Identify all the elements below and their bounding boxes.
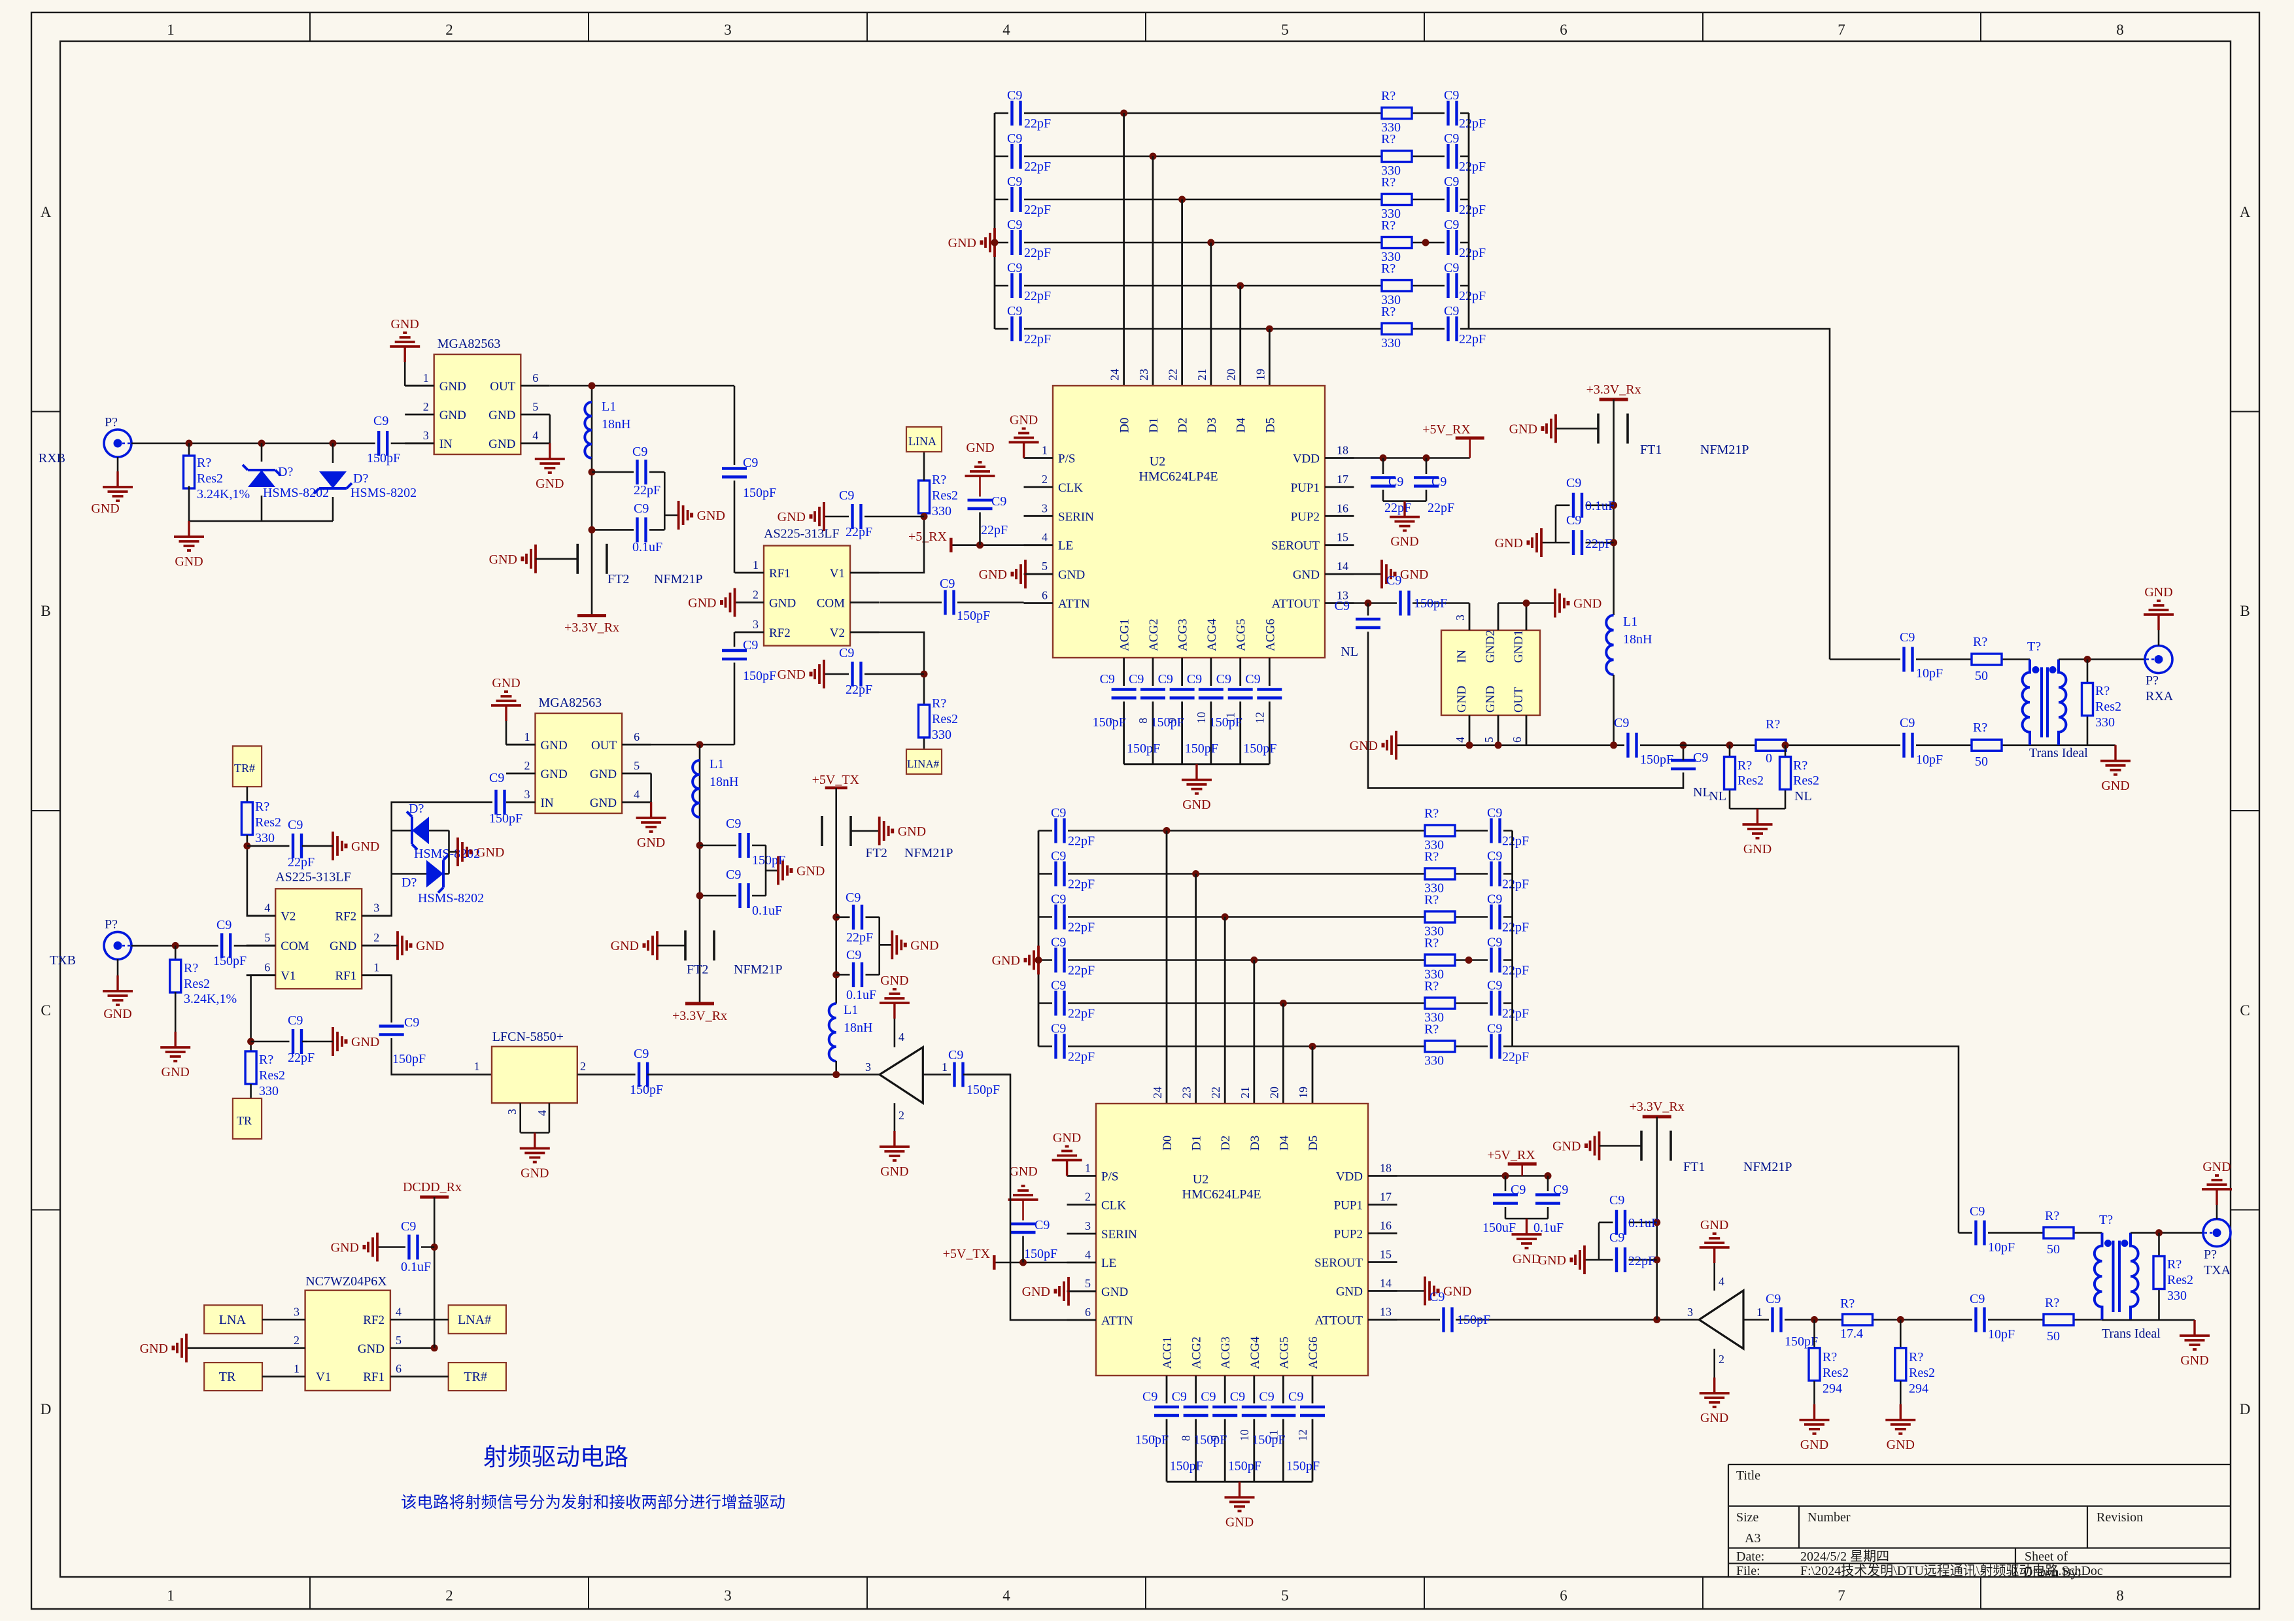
svg-text:10pF: 10pF (1916, 753, 1943, 767)
svg-text:C9: C9 (1444, 131, 1459, 146)
svg-text:150pF: 150pF (630, 1083, 663, 1097)
svg-text:A: A (41, 204, 52, 220)
svg-text:FT1: FT1 (1683, 1160, 1705, 1174)
svg-text:GND: GND (1293, 568, 1320, 582)
svg-text:R?: R? (255, 800, 269, 814)
svg-text:P?: P? (105, 415, 118, 430)
svg-text:GND: GND (140, 1342, 168, 1356)
svg-text:GND: GND (1887, 1438, 1915, 1452)
svg-text:18: 18 (1337, 444, 1348, 457)
svg-text:0.1uF: 0.1uF (1533, 1221, 1564, 1235)
svg-text:150pF: 150pF (489, 811, 522, 826)
svg-text:16: 16 (1380, 1219, 1392, 1232)
svg-text:330: 330 (2095, 715, 2115, 730)
svg-text:23: 23 (1137, 369, 1150, 381)
svg-text:HSMS-8202: HSMS-8202 (351, 486, 417, 500)
svg-text:ACG6: ACG6 (1263, 618, 1277, 651)
svg-text:R?: R? (1973, 720, 1987, 735)
svg-text:D?: D? (402, 875, 417, 890)
svg-text:NFM21P: NFM21P (734, 962, 782, 977)
svg-text:+3.3V_Rx: +3.3V_Rx (672, 1009, 727, 1023)
svg-text:ACG5: ACG5 (1235, 618, 1248, 651)
svg-text:NC7WZ04P6X: NC7WZ04P6X (305, 1274, 387, 1289)
svg-text:330: 330 (255, 831, 275, 845)
svg-text:OUT: OUT (591, 739, 617, 753)
svg-text:Res2: Res2 (2095, 700, 2121, 714)
svg-text:OUT: OUT (1512, 687, 1526, 713)
svg-text:GND: GND (948, 236, 976, 250)
svg-text:GND: GND (796, 864, 825, 879)
svg-text:C9: C9 (1051, 979, 1066, 993)
svg-text:R?: R? (1381, 262, 1395, 276)
svg-text:GND: GND (162, 1065, 190, 1079)
svg-text:C9: C9 (1487, 892, 1502, 907)
svg-text:TR#: TR# (464, 1370, 487, 1384)
svg-text:VDD: VDD (1293, 452, 1320, 466)
svg-text:FT1: FT1 (1640, 443, 1662, 457)
svg-text:Res2: Res2 (1909, 1366, 1935, 1380)
svg-text:24: 24 (1108, 369, 1121, 381)
svg-text:Res2: Res2 (197, 471, 223, 486)
svg-text:D1: D1 (1147, 418, 1161, 433)
svg-text:GND: GND (1552, 1140, 1581, 1154)
svg-text:GND: GND (1225, 1515, 1254, 1529)
svg-text:150pF: 150pF (1252, 1432, 1285, 1447)
svg-text:GND: GND (1495, 536, 1523, 550)
svg-text:GND: GND (590, 796, 617, 810)
svg-text:C9: C9 (1259, 1390, 1274, 1404)
svg-text:GND: GND (910, 938, 938, 953)
svg-text:50: 50 (1975, 669, 1988, 683)
svg-text:R?: R? (2167, 1257, 2182, 1272)
svg-text:4: 4 (1002, 22, 1010, 38)
svg-text:150pF: 150pF (957, 609, 990, 623)
svg-text:18nH: 18nH (602, 417, 630, 431)
svg-text:1: 1 (1042, 444, 1048, 457)
svg-text:GND: GND (492, 676, 520, 690)
svg-text:0.1uF: 0.1uF (1628, 1216, 1658, 1230)
svg-text:150pF: 150pF (367, 451, 400, 465)
svg-text:FT2: FT2 (866, 846, 887, 860)
svg-text:GND: GND (536, 477, 564, 491)
svg-text:CLK: CLK (1058, 481, 1083, 495)
svg-text:C9: C9 (1444, 175, 1459, 189)
svg-text:10pF: 10pF (1988, 1327, 2015, 1342)
svg-text:HMC624LP4E: HMC624LP4E (1138, 469, 1218, 484)
svg-text:22pF: 22pF (1628, 1254, 1655, 1268)
svg-text:GND: GND (637, 836, 665, 850)
svg-text:RF1: RF1 (363, 1370, 385, 1384)
svg-text:Trans Ideal: Trans Ideal (2102, 1327, 2161, 1341)
svg-text:7: 7 (1838, 1587, 1845, 1604)
svg-text:GND: GND (1058, 568, 1085, 582)
svg-text:R?: R? (2045, 1209, 2059, 1223)
svg-text:HSMS-8202: HSMS-8202 (263, 486, 329, 500)
svg-text:GND: GND (351, 1035, 379, 1049)
svg-text:ACG5: ACG5 (1277, 1336, 1291, 1369)
svg-text:22pF: 22pF (288, 1051, 315, 1065)
svg-text:6: 6 (1560, 22, 1567, 38)
svg-text:22pF: 22pF (1024, 246, 1051, 260)
svg-text:0.1uF: 0.1uF (1585, 499, 1615, 513)
svg-text:GND: GND (1513, 1252, 1541, 1266)
svg-text:GND: GND (331, 1241, 359, 1255)
svg-text:C9: C9 (634, 1047, 649, 1061)
svg-text:18nH: 18nH (710, 775, 738, 789)
svg-text:R?: R? (1424, 936, 1439, 951)
svg-text:D0: D0 (1118, 418, 1132, 433)
svg-text:LE: LE (1101, 1257, 1116, 1270)
svg-text:D4: D4 (1277, 1135, 1291, 1151)
svg-text:0: 0 (1766, 751, 1772, 766)
svg-text:C9: C9 (1007, 261, 1022, 275)
svg-text:LNA#: LNA# (458, 1313, 491, 1327)
svg-text:V1: V1 (830, 567, 845, 581)
svg-text:R?: R? (1381, 89, 1395, 103)
svg-text:GND: GND (1700, 1218, 1728, 1232)
svg-text:L1: L1 (602, 399, 616, 414)
svg-text:4: 4 (899, 1030, 904, 1043)
svg-text:GND: GND (1509, 422, 1537, 437)
svg-text:C9: C9 (1142, 1390, 1157, 1404)
svg-text:B: B (2240, 603, 2250, 619)
svg-text:T?: T? (2027, 639, 2041, 654)
svg-text:SEROUT: SEROUT (1314, 1257, 1363, 1270)
svg-text:Res2: Res2 (1823, 1366, 1849, 1380)
svg-text:23: 23 (1180, 1087, 1193, 1098)
svg-text:2: 2 (294, 1334, 300, 1347)
svg-text:GND1: GND1 (1512, 630, 1526, 663)
svg-text:6: 6 (532, 371, 538, 384)
svg-text:2: 2 (445, 22, 453, 38)
svg-text:C9: C9 (1100, 672, 1115, 686)
svg-text:5: 5 (1042, 560, 1048, 573)
svg-text:GND: GND (416, 939, 444, 953)
svg-text:150pF: 150pF (967, 1083, 1000, 1097)
svg-text:ACG4: ACG4 (1205, 618, 1219, 651)
svg-text:3: 3 (1085, 1219, 1091, 1232)
svg-text:3.24K,1%: 3.24K,1% (197, 487, 250, 501)
svg-text:ATTOUT: ATTOUT (1314, 1314, 1363, 1328)
svg-text:1: 1 (373, 961, 379, 974)
svg-text:+5V_TX: +5V_TX (812, 773, 860, 787)
svg-text:150pF: 150pF (1457, 1313, 1490, 1327)
svg-text:3: 3 (753, 618, 759, 631)
svg-text:3: 3 (524, 788, 530, 801)
svg-text:R?: R? (1738, 758, 1752, 773)
svg-text:GND: GND (1443, 1285, 1471, 1299)
svg-text:MGA82563: MGA82563 (437, 337, 501, 351)
svg-text:ACG3: ACG3 (1176, 618, 1190, 651)
svg-text:22pF: 22pF (1428, 501, 1454, 515)
svg-text:4: 4 (1719, 1275, 1724, 1288)
svg-text:GND: GND (880, 973, 908, 988)
svg-text:C9: C9 (1230, 1390, 1245, 1404)
svg-text:RF1: RF1 (335, 970, 356, 983)
svg-text:22pF: 22pF (981, 523, 1008, 537)
svg-text:150pF: 150pF (752, 853, 785, 868)
svg-text:DCDD_Rx: DCDD_Rx (403, 1180, 462, 1194)
svg-text:1: 1 (167, 22, 175, 38)
svg-text:22pF: 22pF (1068, 1007, 1095, 1021)
svg-text:22pF: 22pF (1068, 921, 1095, 935)
svg-text:GND: GND (1350, 739, 1378, 753)
svg-text:GND: GND (697, 509, 725, 523)
svg-text:22pF: 22pF (1459, 246, 1486, 260)
svg-text:GND: GND (1400, 567, 1428, 582)
svg-text:C9: C9 (1035, 1218, 1050, 1232)
svg-text:1: 1 (294, 1362, 300, 1375)
svg-text:22pF: 22pF (1024, 203, 1051, 217)
svg-text:C9: C9 (1051, 892, 1066, 907)
svg-text:LFCN-5850+: LFCN-5850+ (492, 1030, 564, 1044)
svg-text:C9: C9 (726, 868, 741, 882)
svg-text:150pF: 150pF (1414, 596, 1447, 611)
svg-text:C9: C9 (1444, 304, 1459, 318)
svg-text:0.1uF: 0.1uF (846, 988, 876, 1002)
svg-text:C9: C9 (1051, 849, 1066, 864)
svg-text:Res2: Res2 (932, 712, 958, 726)
svg-text:ACG3: ACG3 (1219, 1336, 1233, 1369)
svg-text:LNA: LNA (219, 1313, 247, 1327)
svg-text:GND: GND (2144, 585, 2172, 600)
svg-text:C9: C9 (1900, 630, 1915, 645)
svg-text:C9: C9 (1007, 88, 1022, 103)
svg-text:R?: R? (1973, 635, 1987, 649)
svg-text:R?: R? (1840, 1296, 1855, 1311)
svg-text:4: 4 (264, 902, 270, 915)
svg-text:GND: GND (880, 1164, 908, 1179)
svg-text:C9: C9 (948, 1048, 963, 1062)
svg-text:GND: GND (541, 768, 568, 781)
svg-text:150pF: 150pF (1286, 1459, 1320, 1473)
svg-text:IN: IN (439, 437, 453, 451)
svg-text:A3: A3 (1745, 1531, 1760, 1546)
svg-text:GND: GND (488, 409, 515, 422)
svg-text:4: 4 (396, 1305, 402, 1318)
svg-text:10: 10 (1195, 712, 1208, 724)
svg-text:SERIN: SERIN (1058, 510, 1094, 524)
svg-text:ACG2: ACG2 (1147, 618, 1161, 651)
svg-text:20: 20 (1267, 1087, 1280, 1098)
svg-text:22pF: 22pF (1459, 289, 1486, 303)
svg-text:C9: C9 (1487, 849, 1502, 864)
svg-text:+5V_TX: +5V_TX (943, 1247, 991, 1261)
svg-text:C9: C9 (1051, 1022, 1066, 1036)
svg-text:C9: C9 (1388, 475, 1403, 489)
svg-text:RXB: RXB (39, 451, 65, 465)
svg-text:330: 330 (259, 1084, 279, 1098)
svg-text:P/S: P/S (1058, 452, 1075, 466)
svg-text:C9: C9 (1970, 1292, 1985, 1306)
svg-text:R?: R? (1793, 758, 1807, 773)
svg-text:D: D (2240, 1401, 2251, 1417)
svg-text:150pF: 150pF (1785, 1334, 1818, 1349)
svg-text:C9: C9 (489, 771, 504, 785)
svg-text:GND: GND (2202, 1160, 2231, 1174)
svg-text:4: 4 (532, 429, 538, 442)
svg-text:Res2: Res2 (259, 1068, 285, 1083)
svg-text:Res2: Res2 (1793, 773, 1819, 788)
svg-text:0.1uF: 0.1uF (401, 1260, 431, 1274)
svg-text:Res2: Res2 (184, 977, 210, 991)
svg-text:MGA82563: MGA82563 (539, 696, 602, 710)
svg-text:P?: P? (2146, 673, 2159, 688)
svg-text:GND: GND (521, 1166, 549, 1181)
svg-text:C9: C9 (1444, 218, 1459, 232)
svg-text:C9: C9 (1487, 936, 1502, 950)
svg-text:C9: C9 (1566, 476, 1581, 490)
svg-text:1: 1 (942, 1060, 948, 1074)
svg-text:150pF: 150pF (743, 669, 776, 683)
svg-text:R?: R? (184, 961, 198, 975)
svg-text:RXA: RXA (2146, 689, 2174, 703)
svg-text:17.4: 17.4 (1840, 1327, 1863, 1341)
svg-text:GND: GND (476, 845, 504, 860)
svg-text:4: 4 (1454, 737, 1467, 743)
svg-text:6: 6 (264, 961, 270, 974)
svg-text:18nH: 18nH (1623, 632, 1652, 647)
svg-text:C9: C9 (216, 918, 231, 932)
svg-text:GND: GND (778, 510, 806, 524)
svg-text:R?: R? (1381, 305, 1395, 319)
svg-text:150pF: 150pF (743, 486, 776, 500)
svg-text:RF2: RF2 (363, 1313, 385, 1327)
svg-text:4: 4 (1042, 531, 1048, 544)
svg-text:3: 3 (423, 429, 429, 442)
svg-text:GND: GND (1182, 798, 1210, 812)
svg-text:150pF: 150pF (392, 1052, 426, 1066)
svg-text:150pF: 150pF (1228, 1459, 1261, 1473)
svg-text:22pF: 22pF (1459, 332, 1486, 347)
svg-text:C9: C9 (1158, 672, 1173, 686)
svg-text:GND: GND (966, 441, 994, 455)
svg-text:22pF: 22pF (1502, 1007, 1529, 1021)
svg-text:5: 5 (1482, 737, 1496, 743)
svg-text:NFM21P: NFM21P (1700, 443, 1749, 457)
svg-text:3: 3 (373, 902, 379, 915)
svg-text:6: 6 (1042, 589, 1048, 602)
svg-text:GND: GND (1053, 1131, 1081, 1145)
svg-text:6: 6 (634, 730, 640, 743)
svg-text:0.1uF: 0.1uF (632, 540, 662, 554)
svg-text:GND: GND (1573, 597, 1601, 611)
svg-text:R?: R? (1381, 132, 1395, 146)
svg-text:2: 2 (1042, 473, 1048, 486)
svg-text:COM: COM (281, 939, 309, 953)
svg-text:2: 2 (373, 931, 379, 944)
svg-text:22pF: 22pF (1502, 1050, 1529, 1064)
svg-text:D5: D5 (1307, 1136, 1320, 1151)
svg-text:GND: GND (1101, 1285, 1128, 1299)
svg-text:150pF: 150pF (1209, 715, 1242, 730)
svg-text:50: 50 (2047, 1329, 2060, 1344)
svg-text:150pF: 150pF (213, 954, 247, 968)
svg-text:IN: IN (541, 796, 554, 810)
svg-text:C9: C9 (634, 501, 649, 516)
svg-text:150pF: 150pF (1243, 741, 1276, 756)
svg-text:150pF: 150pF (1640, 753, 1673, 767)
svg-text:5: 5 (634, 759, 640, 772)
svg-text:R?: R? (1766, 717, 1780, 732)
svg-text:13: 13 (1380, 1306, 1392, 1319)
svg-text:GND: GND (1484, 686, 1498, 713)
svg-text:C9: C9 (373, 414, 388, 428)
svg-text:R?: R? (1909, 1350, 1923, 1364)
svg-text:NFM21P: NFM21P (904, 846, 953, 860)
svg-text:22: 22 (1209, 1087, 1222, 1098)
svg-text:PUP2: PUP2 (1334, 1228, 1363, 1242)
svg-text:R?: R? (932, 473, 946, 487)
svg-text:22pF: 22pF (1384, 501, 1411, 515)
svg-text:5: 5 (1281, 22, 1289, 38)
svg-text:10pF: 10pF (1916, 666, 1943, 681)
svg-text:Sheet of: Sheet of (2025, 1549, 2068, 1564)
svg-text:C9: C9 (1553, 1183, 1568, 1197)
svg-text:C9: C9 (404, 1015, 419, 1030)
svg-text:150pF: 150pF (1170, 1459, 1203, 1473)
svg-text:22pF: 22pF (1068, 877, 1095, 892)
svg-text:5: 5 (1085, 1277, 1091, 1290)
svg-text:22pF: 22pF (634, 483, 660, 498)
svg-text:L1: L1 (844, 1003, 858, 1017)
svg-text:3: 3 (865, 1060, 871, 1074)
svg-text:GND: GND (1010, 413, 1038, 428)
svg-text:GND2: GND2 (1484, 630, 1498, 663)
svg-text:RF1: RF1 (769, 567, 791, 581)
svg-text:GND: GND (1743, 842, 1772, 856)
svg-text:294: 294 (1823, 1381, 1842, 1396)
svg-text:D2: D2 (1219, 1136, 1233, 1151)
svg-text:R?: R? (1823, 1350, 1837, 1364)
svg-text:C9: C9 (846, 948, 861, 962)
svg-text:5: 5 (396, 1334, 402, 1347)
svg-text:P?: P? (2204, 1247, 2217, 1262)
svg-text:10pF: 10pF (1988, 1240, 2015, 1255)
svg-text:C9: C9 (1609, 1230, 1624, 1245)
svg-text:ACG2: ACG2 (1190, 1336, 1204, 1369)
svg-text:ACG1: ACG1 (1118, 618, 1132, 651)
svg-text:150pF: 150pF (1024, 1247, 1057, 1261)
svg-text:2: 2 (423, 400, 429, 413)
svg-text:Res2: Res2 (1738, 773, 1764, 788)
svg-text:12: 12 (1296, 1429, 1309, 1441)
svg-text:330: 330 (2167, 1289, 2187, 1303)
svg-text:B: B (41, 603, 50, 619)
svg-text:GND: GND (979, 567, 1007, 582)
svg-text:1: 1 (167, 1587, 175, 1604)
svg-text:C9: C9 (1007, 175, 1022, 189)
svg-text:2: 2 (524, 759, 530, 772)
svg-text:SERIN: SERIN (1101, 1228, 1137, 1242)
svg-text:Trans Ideal: Trans Ideal (2029, 746, 2088, 760)
svg-text:D2: D2 (1176, 418, 1190, 433)
svg-text:7: 7 (1838, 22, 1845, 38)
svg-text:22pF: 22pF (846, 683, 872, 697)
svg-text:22pF: 22pF (1502, 921, 1529, 935)
svg-text:3: 3 (1687, 1306, 1693, 1319)
svg-text:20: 20 (1225, 369, 1238, 381)
svg-text:Title: Title (1736, 1468, 1760, 1483)
svg-text:NFM21P: NFM21P (1743, 1160, 1792, 1174)
svg-text:C9: C9 (1129, 672, 1144, 686)
svg-text:NL: NL (1709, 789, 1726, 804)
svg-text:GND: GND (175, 554, 203, 569)
svg-text:22pF: 22pF (846, 525, 872, 539)
svg-text:8: 8 (2116, 22, 2124, 38)
svg-text:2: 2 (445, 1587, 453, 1604)
svg-text:2: 2 (580, 1060, 586, 1073)
